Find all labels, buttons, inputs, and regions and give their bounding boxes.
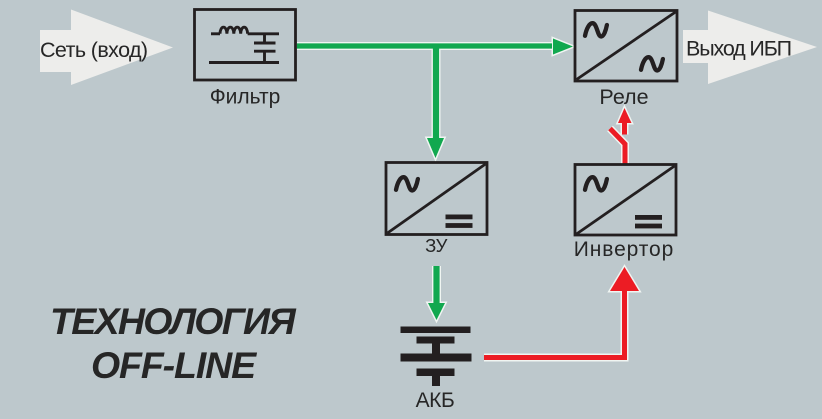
svg-text:Фильтр: Фильтр [210,86,281,109]
svg-text:АКБ: АКБ [416,389,455,412]
svg-text:Инвертор: Инвертор [574,238,674,261]
svg-text:Реле: Реле [599,85,648,109]
svg-text:Сеть (вход): Сеть (вход) [40,38,147,62]
svg-text:OFF-LINE: OFF-LINE [91,344,257,386]
svg-text:Выход ИБП: Выход ИБП [686,37,791,61]
svg-text:ЗУ: ЗУ [425,235,447,256]
svg-text:ТЕХНОЛОГИЯ: ТЕХНОЛОГИЯ [50,300,296,342]
